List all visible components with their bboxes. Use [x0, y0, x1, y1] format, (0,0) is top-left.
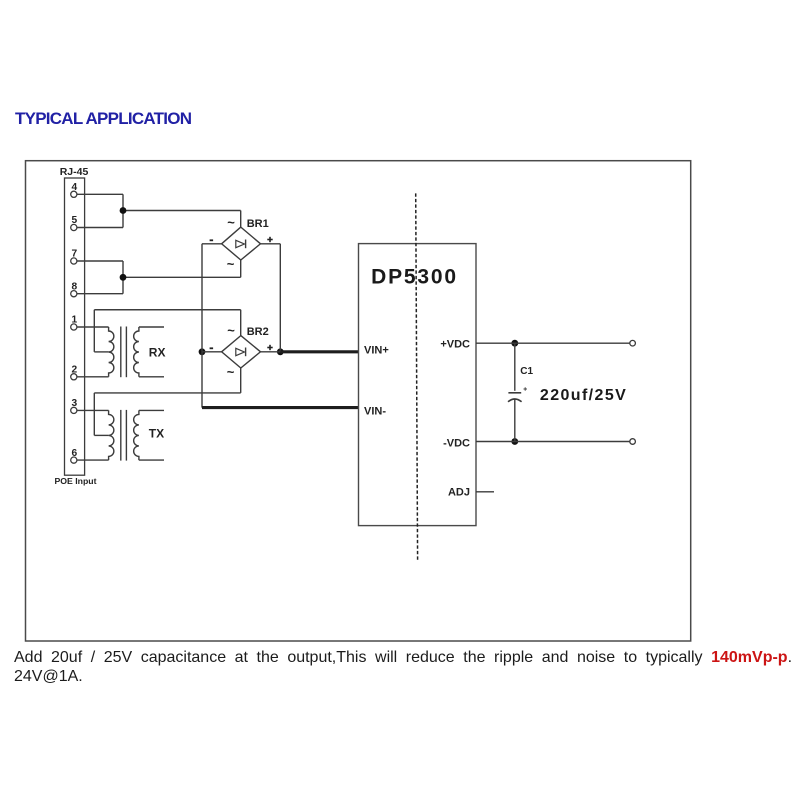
svg-text:~: ~ — [227, 323, 235, 338]
svg-text:VIN+: VIN+ — [364, 345, 389, 357]
svg-text:C1: C1 — [520, 366, 533, 377]
svg-text:VIN-: VIN- — [364, 406, 386, 418]
svg-text:BR1: BR1 — [247, 218, 269, 230]
svg-text:1: 1 — [71, 315, 77, 326]
svg-text:7: 7 — [71, 249, 77, 260]
svg-text:ADJ: ADJ — [448, 487, 470, 499]
svg-text:RJ-45: RJ-45 — [60, 166, 89, 178]
svg-text:3: 3 — [71, 398, 77, 409]
svg-text:220uf/25V: 220uf/25V — [540, 387, 627, 404]
svg-text:RX: RX — [149, 346, 166, 360]
svg-text:5: 5 — [71, 215, 77, 226]
svg-text:~: ~ — [227, 365, 235, 380]
svg-text:8: 8 — [71, 281, 77, 292]
svg-text:BR2: BR2 — [247, 326, 269, 338]
svg-text:+VDC: +VDC — [440, 339, 470, 351]
svg-text:TX: TX — [149, 427, 164, 441]
svg-text:DP5300: DP5300 — [371, 266, 458, 289]
svg-text:4: 4 — [71, 182, 77, 193]
svg-text:~: ~ — [227, 257, 235, 272]
svg-text:~: ~ — [227, 215, 235, 230]
svg-text:6: 6 — [71, 448, 77, 459]
svg-text:POE Input: POE Input — [55, 476, 97, 486]
svg-text:2: 2 — [71, 365, 77, 376]
svg-text:-VDC: -VDC — [443, 438, 470, 450]
